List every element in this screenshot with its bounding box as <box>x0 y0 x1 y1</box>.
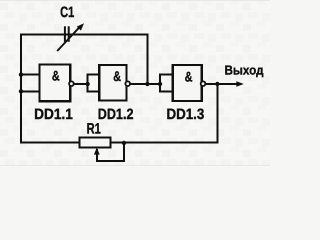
node R1 wiper <box>122 141 126 145</box>
wire DD1.2 output to DD1.3 <box>130 83 160 85</box>
svg-text:DD1.2: DD1.2 <box>98 106 134 123</box>
wire DD1.1 input stub upper <box>21 74 40 76</box>
node DD1.3 tie <box>158 82 162 86</box>
paper background <box>0 0 270 166</box>
node input upper <box>19 72 23 76</box>
output arrowhead <box>236 81 244 86</box>
wire DD1.3 input stub lower <box>160 90 173 92</box>
wire R1 wiper path <box>97 143 124 161</box>
svg-text:C1: C1 <box>60 4 74 21</box>
wire top feedback <box>21 33 147 35</box>
node output <box>215 82 219 86</box>
svg-text:DD1.1: DD1.1 <box>34 106 73 123</box>
NAND gate DD1.1 box <box>40 65 71 102</box>
junction node dots <box>19 72 220 145</box>
gate DD1.3 inversion bubble <box>201 81 206 86</box>
wire DD1.3 input stub upper <box>160 74 173 76</box>
svg-text:&: & <box>185 69 193 85</box>
wire DD1.3 input tie vertical <box>159 75 161 92</box>
NAND gate DD1.2 box <box>99 65 126 101</box>
svg-text:DD1.3: DD1.3 <box>166 106 204 123</box>
wire C1 return vertical <box>146 34 148 84</box>
resistor R1 body <box>80 138 111 148</box>
wire DD1.2 input stub upper <box>88 74 100 76</box>
svg-text:R1: R1 <box>87 120 101 137</box>
node C1 return <box>145 82 149 86</box>
resistor R1 wiper arrowhead <box>94 148 100 155</box>
capacitor C1 arrowhead <box>77 23 84 30</box>
wire DD1.1 input stub lower <box>21 90 40 92</box>
gate DD1.2 inversion bubble <box>125 81 130 86</box>
wire DD1.2 input stub lower <box>88 90 100 92</box>
wire bottom left segment <box>21 142 80 144</box>
wire left vertical feedback bus <box>20 34 22 142</box>
wire bottom right segment <box>111 142 218 144</box>
svg-text:&: & <box>52 68 60 84</box>
wire right vertical from output to R1 <box>216 84 218 143</box>
wire DD1.2 input tie vertical <box>87 75 89 92</box>
wire DD1.3 output to arrow <box>206 83 238 85</box>
gate DD1.1 inversion bubble <box>69 81 74 86</box>
svg-text:&: & <box>113 68 121 84</box>
wire DD1.1 output to DD1.2 <box>74 83 88 85</box>
svg-text:Выход: Выход <box>224 62 264 77</box>
node DD1.2 tie <box>85 82 89 86</box>
capacitor C1 <box>57 26 80 51</box>
node input lower <box>19 89 23 93</box>
NAND gate DD1.3 box <box>173 65 202 101</box>
